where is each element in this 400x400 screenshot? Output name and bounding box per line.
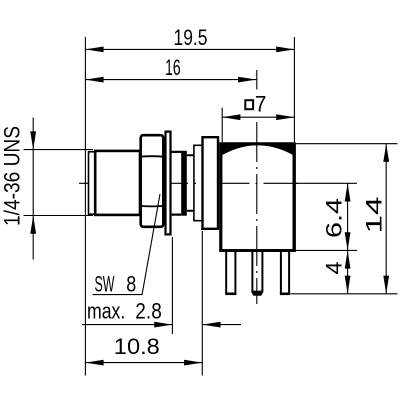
body right edge: [293, 143, 296, 252]
vertical centerline: [256, 122, 258, 304]
lock washer: [166, 132, 171, 235]
cylinder section: [172, 152, 182, 215]
dimension 6.4: [322, 183, 351, 250]
svg-text:14: 14: [361, 197, 386, 234]
extension line washer back x=172.4: [171, 237, 173, 334]
center pin leg: [251, 252, 263, 296]
flange: [203, 137, 219, 229]
svg-text:8: 8: [126, 272, 136, 297]
extension line flange front x=202.3: [201, 231, 203, 376]
dimension 14: [361, 144, 389, 294]
extension line left reference face x=85.4: [84, 37, 86, 376]
extension line body top y=143.7: [296, 143, 398, 145]
svg-text:6.4: 6.4: [322, 198, 347, 238]
body top edge: [219, 142, 296, 145]
svg-text:SW: SW: [95, 272, 115, 297]
svg-text:10.8: 10.8: [114, 334, 160, 359]
body dome arc fill: [222, 143, 295, 156]
extension line leg bottom y=293.8: [291, 293, 398, 295]
horizontal centerline: [79, 182, 298, 184]
dimension 1/4-36 UNS: [0, 118, 93, 260]
svg-text:7: 7: [255, 91, 267, 116]
dimension 19.5: [85, 25, 294, 52]
extension line axis y=183.3: [296, 182, 357, 184]
leg 1: [225, 252, 236, 294]
dimension square 7: [222, 91, 294, 120]
extension line body left face x=222.2: [221, 108, 223, 142]
gasket: [194, 145, 202, 220]
small cylinder section: [187, 155, 194, 211]
SW 8 label: [95, 272, 137, 297]
body left edge: [219, 143, 222, 251]
dimension 10.8: [85, 334, 202, 365]
svg-text:16: 16: [165, 55, 181, 80]
leg 3: [280, 252, 290, 294]
dimension max. 2.8: [82, 299, 241, 328]
hex nut SW8: [141, 135, 164, 227]
extension tick body center x=256.8: [256, 70, 258, 90]
dimension 16: [85, 55, 256, 83]
connector mating face plate: [89, 152, 96, 214]
svg-text:max.: max.: [87, 299, 125, 324]
svg-text:2.8: 2.8: [135, 299, 162, 324]
body bottom edge: [219, 249, 296, 252]
hex nut lower facet line: [140, 205, 164, 208]
dimension 4: [322, 250, 351, 293]
hex nut upper facet line: [140, 155, 164, 158]
dark ring: [181, 151, 187, 216]
SW 8 leader: [93, 194, 161, 295]
svg-text:19.5: 19.5: [174, 25, 208, 50]
svg-text:1/4-36 UNS: 1/4-36 UNS: [0, 126, 25, 226]
extension line body right face x=294.4: [293, 37, 295, 142]
threaded barrel: [95, 151, 140, 215]
extension line body bottom y=250.4: [296, 249, 357, 251]
svg-text:4: 4: [322, 262, 347, 275]
